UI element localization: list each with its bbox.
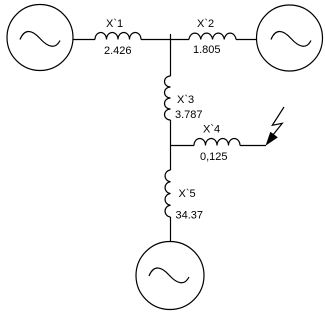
generator G2 sine symbol	[271, 31, 311, 46]
inductor X`4 coil	[194, 139, 240, 146]
inductor X`3 coil	[165, 76, 171, 120]
inductor X`5 coil	[165, 170, 170, 217]
inductor X`2 coil	[189, 33, 236, 39]
generator G1 (top-left AC source circle)	[7, 5, 73, 71]
svg-text:X`4: X`4	[203, 124, 220, 136]
wire G1 to X`1	[73, 39, 95, 41]
svg-text:0,125: 0,125	[200, 151, 228, 163]
svg-text:34.37: 34.37	[176, 210, 204, 222]
node B branch wire to X`4	[171, 145, 195, 147]
wire X`3 to node B	[170, 120, 172, 170]
generator G3 sine symbol	[149, 268, 189, 283]
wire X`1 to node A	[141, 39, 189, 41]
fault lightning bolt stroke	[271, 107, 285, 138]
svg-text:2.426: 2.426	[104, 45, 132, 57]
fault arrowhead	[267, 133, 278, 145]
inductor X`1 coil	[95, 33, 141, 40]
generator G3 (bottom AC source circle)	[136, 242, 204, 310]
wire X`2 to G2	[236, 39, 257, 41]
wire X`5 to G3	[170, 217, 172, 242]
wire X`4 to fault point	[240, 145, 266, 147]
svg-text:X`3: X`3	[177, 94, 194, 106]
svg-text:3.787: 3.787	[175, 109, 203, 121]
generator G2 (top-right AC source circle)	[257, 5, 323, 71]
node A (bus junction with stub)	[170, 34, 172, 76]
svg-text:X`2: X`2	[197, 18, 214, 30]
generator G1 sine symbol	[20, 31, 60, 46]
svg-text:1.805: 1.805	[193, 44, 221, 56]
svg-text:X`1: X`1	[106, 18, 123, 30]
svg-text:X`5: X`5	[179, 188, 196, 200]
